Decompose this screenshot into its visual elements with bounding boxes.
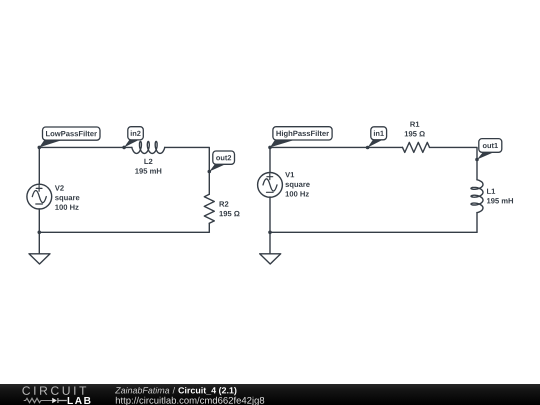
ground right [260,254,281,264]
wire R2 bottom stub [208,223,210,232]
wire V2 top lead [38,147,40,184]
wire ground stem right [269,232,271,254]
wire ground stem left [38,232,40,254]
label L2 value 195 mH [135,159,161,174]
node out2 [208,170,212,174]
net flag in1 [368,127,387,148]
wire V2 bottom lead [38,209,40,232]
label V2 value square 100 Hz [55,185,80,210]
net flag LowPassFilter [39,127,100,147]
voltage source V1 [258,173,283,198]
wire V1 bottom lead [269,197,271,232]
net flag in2 [124,127,143,148]
node top-left right circuit [268,146,272,150]
voltage source V2 [27,184,52,209]
footer title ZainabFatima / Circuit_4 (2.1) [115,387,169,394]
wire V1 top lead [269,147,271,172]
net flag HighPassFilter [270,127,332,148]
label V1 value square 100 Hz [285,172,310,197]
wire R1 to top-right corner [430,147,478,179]
logo resistor squiggle [24,398,53,402]
ground left [29,254,50,264]
resistor R2 [204,194,214,223]
net flag out2 [209,151,234,172]
wire top rail left circuit [39,146,132,148]
inductor L2 [132,141,165,153]
wire bottom rail left circuit [39,231,209,233]
node in2 [122,146,126,150]
footer url [116,397,264,405]
label R1 value 195 ohm [405,122,425,137]
node out1 [475,158,479,162]
logo diode [52,398,67,404]
node top-left left circuit [38,146,42,150]
resistor R1 [403,142,430,152]
node in1 [366,146,370,150]
wire L2 to top-right corner [165,147,210,194]
wire top rail right circuit [270,146,403,148]
logo wordmark CIRCUIT [22,386,86,395]
wire L1 bottom stub [476,213,478,233]
label L1 value 195 mH [487,189,513,204]
wire bottom rail right circuit [270,231,477,233]
node ground junction right [268,231,272,235]
inductor L1 [471,180,483,213]
logo wordmark LAB [68,397,91,404]
net flag out1 [477,139,502,160]
label R2 value 195 ohm [219,201,239,216]
node ground junction left [38,231,42,235]
